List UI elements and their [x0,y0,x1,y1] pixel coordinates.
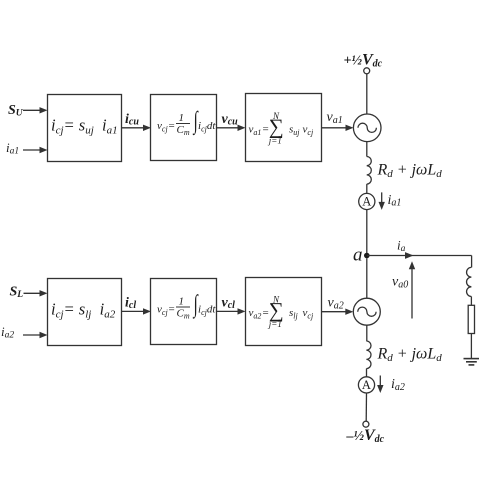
svg-text:A: A [362,195,371,209]
wire S_L input arrow [24,290,48,296]
label i_a1 current [388,193,402,209]
label v_a0 [392,275,408,291]
current arrow i_a2 [377,376,383,394]
svg-text:ia: ia [397,238,406,255]
wire load inductor to resistor [470,297,472,306]
svg-text:ia1: ia1 [6,140,19,157]
svg-text:icu: icu [125,112,139,128]
svg-text:icjdt: icjdt [198,304,216,318]
load resistor [468,305,474,333]
label Rd + jwLd lower [377,346,443,365]
svg-text:vcj: vcj [157,304,168,318]
svg-text:=: = [169,120,175,132]
svg-text:vcj: vcj [157,120,168,134]
wire v_a2 arrow [322,309,353,315]
wire ammeter A1 to node a [366,210,368,256]
label S_U [8,103,24,119]
svg-text:va0: va0 [392,275,408,291]
label +1/2 Vdc [344,52,383,70]
block U6: va2 = sum slj vcj [246,278,322,346]
wire v_a1 arrow [322,125,354,131]
label i_a2 [1,324,14,341]
svg-text:1: 1 [179,296,185,308]
svg-text:N: N [272,111,280,121]
svg-text:va2: va2 [328,296,344,312]
label i_cl [125,296,136,312]
svg-text:icj= slj ia2: icj= slj ia2 [51,300,116,321]
wire source V1 to inductor [366,142,368,157]
label S_L [10,285,24,301]
svg-text:=: = [169,304,175,316]
wire ammeter A2 to terminal [365,393,367,421]
wire i_a1 input arrow [23,147,48,153]
svg-text:Rd + jωLd: Rd + jωLd [377,346,443,365]
svg-text:ia2: ia2 [1,324,14,341]
wire v_cl arrow [217,308,246,314]
svg-text:va1: va1 [249,124,262,138]
label Rd + jwLd upper [377,162,443,181]
svg-text:icj= suj ia1: icj= suj ia1 [51,116,118,137]
svg-text:suj: suj [289,124,300,138]
svg-text:vcl: vcl [222,296,236,312]
svg-text:Cm: Cm [177,308,190,321]
wire resistor to ground [470,334,472,359]
svg-text:vcj: vcj [303,124,314,138]
svg-text:SL: SL [10,285,24,301]
wire inductor to ammeter A1 [366,184,368,193]
block U5: vcj = 1/Cm integral icj dt [151,279,217,345]
terminal -Vdc [363,421,369,427]
block U4: icj = slj ia2 [48,279,122,346]
arrow v_a0 [409,261,415,318]
block U1: icj = suj ia1 [48,95,122,162]
svg-text:vcu: vcu [222,112,239,128]
label i_a [397,238,406,255]
svg-text:1: 1 [179,112,185,124]
wire i_cu arrow [122,125,151,131]
wire i_a2 input arrow [23,332,48,338]
svg-text:+½Vdc: +½Vdc [344,52,383,70]
wire inductor to ammeter A2 [366,369,368,377]
wire S_U input arrow [23,107,48,113]
wire source V2 to inductor [366,325,368,341]
inductor Rd+jwLd lower arm [366,341,371,369]
svg-text:vcj: vcj [303,307,314,321]
svg-text:slj: slj [289,307,299,321]
label v_cu [222,112,239,128]
label i_cu [125,112,139,128]
inductor Rd+jwLd upper arm [367,157,372,185]
wire terminal to source V1 [366,74,368,114]
svg-text:icl: icl [125,296,136,312]
label -1/2 Vdc [346,427,385,445]
wire v_cu arrow [217,125,246,131]
label v_a2 [328,296,344,312]
svg-text:–½Vdc: –½Vdc [346,427,385,445]
ground [464,359,479,365]
svg-text:Cm: Cm [177,124,190,137]
svg-text:SU: SU [8,103,24,119]
svg-text:va2: va2 [249,307,262,321]
svg-text:va1: va1 [327,110,343,126]
ammeter A2 [358,377,374,393]
svg-text:Rd + jωLd: Rd + jωLd [377,162,443,181]
AC source V1 [353,114,381,142]
svg-text:j=1: j=1 [268,319,282,329]
svg-text:N: N [272,295,280,305]
load inductor [467,267,472,296]
label v_a1 [327,110,343,126]
block U3: va1 = sum suj vcj [246,94,322,162]
block U2: vcj = 1/Cm integral icj dt [151,95,217,161]
wire node a to source V2 [366,258,368,298]
label i_a1 [6,140,19,157]
svg-text:ia1: ia1 [388,193,402,209]
terminal +Vdc [364,68,370,74]
svg-text:icjdt: icjdt [198,120,216,134]
current arrow i_a1 [379,192,385,210]
svg-text:ia2: ia2 [391,377,405,393]
ammeter A1 [359,193,375,209]
wire node a to load (i_a) [367,252,472,259]
svg-text:a: a [353,245,363,266]
svg-text:j=1: j=1 [268,135,282,145]
node a [353,245,370,266]
label i_a2 current [391,377,405,393]
label v_cl [222,296,236,312]
wire i_cl arrow [122,308,151,314]
AC source V2 [353,298,380,325]
wire load corner down [471,256,473,268]
svg-text:A: A [362,378,371,392]
